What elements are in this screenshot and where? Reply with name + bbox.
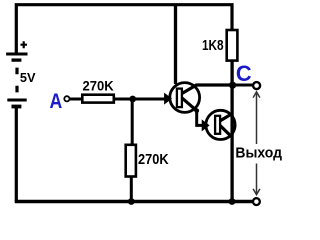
svg-text:1K8: 1K8 [202,38,224,54]
svg-text:A: A [50,89,63,113]
svg-text:C: C [236,61,252,86]
svg-text:270K: 270K [83,77,114,93]
svg-text:5V: 5V [20,70,36,85]
svg-text:Выход: Выход [235,145,282,161]
svg-text:270K: 270K [138,152,169,168]
